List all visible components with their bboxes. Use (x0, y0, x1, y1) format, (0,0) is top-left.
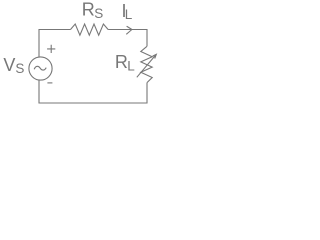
svg-text:R: R (115, 52, 128, 72)
resistor RL (variable) (141, 46, 152, 82)
voltage source VS (AC symbol) (29, 57, 52, 80)
svg-text:R: R (82, 0, 95, 19)
svg-text:V: V (3, 55, 15, 75)
resistor RS (71, 24, 109, 35)
wire top-right segment (108, 30, 147, 47)
svg-text:L: L (125, 7, 133, 22)
svg-text:S: S (94, 6, 103, 21)
minus polarity mark (47, 82, 52, 84)
svg-text:L: L (127, 58, 135, 73)
variable resistor arrow (137, 55, 156, 78)
wire top-left segment (39, 30, 71, 58)
wire right-bottom segment (39, 80, 147, 103)
current arrow IL head (126, 26, 132, 34)
svg-text:S: S (15, 61, 24, 76)
plus polarity mark (47, 45, 55, 53)
